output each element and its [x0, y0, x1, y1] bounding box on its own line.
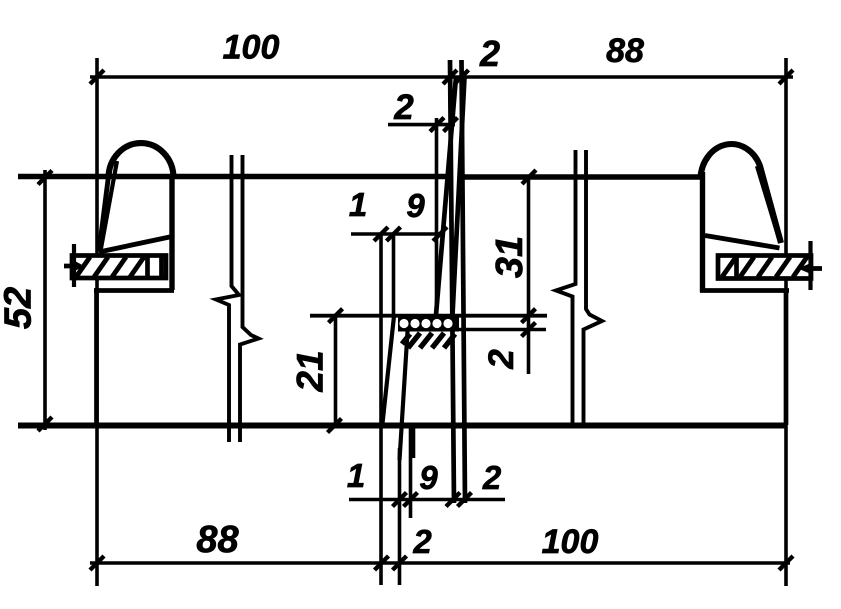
svg-text:88: 88	[196, 519, 239, 561]
svg-text:21: 21	[290, 350, 331, 392]
svg-text:1: 1	[349, 186, 367, 223]
svg-text:2: 2	[412, 523, 432, 560]
svg-text:31: 31	[489, 236, 531, 278]
svg-text:2: 2	[479, 33, 500, 74]
svg-text:100: 100	[223, 29, 280, 67]
svg-text:1: 1	[347, 457, 365, 494]
svg-text:2: 2	[482, 349, 521, 370]
svg-text:2: 2	[393, 88, 414, 127]
svg-text:100: 100	[542, 523, 599, 561]
svg-text:52: 52	[0, 287, 40, 329]
svg-text:9: 9	[419, 459, 438, 496]
svg-text:88: 88	[606, 32, 644, 70]
svg-text:9: 9	[406, 187, 425, 224]
svg-text:2: 2	[482, 459, 502, 496]
